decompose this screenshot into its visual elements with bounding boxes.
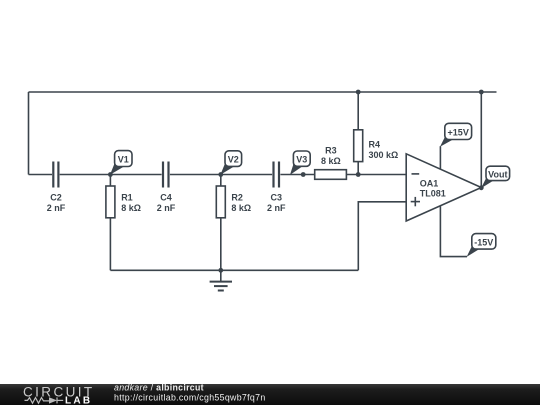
power net tag -15V	[467, 234, 496, 257]
resistor R2 value label	[231, 193, 251, 214]
svg-text:C4: C4	[160, 193, 172, 203]
wire V+ supply pin	[439, 146, 441, 170]
resistor R4 value label	[369, 139, 399, 160]
probe flag V1	[110, 151, 132, 175]
svg-text:V3: V3	[296, 155, 307, 165]
svg-text:C2: C2	[50, 193, 62, 203]
svg-text:V1: V1	[118, 154, 129, 164]
svg-text:300 kΩ: 300 kΩ	[369, 150, 399, 160]
svg-text:OA1: OA1	[420, 179, 439, 189]
ground	[210, 270, 232, 290]
node R3-R4 junction	[356, 172, 361, 177]
wire R1 top stub	[109, 175, 111, 187]
wire C4 to C3 through node V2	[170, 174, 272, 176]
svg-text:R3: R3	[325, 146, 337, 156]
node V1 junction	[108, 172, 113, 177]
output net tag Vout	[481, 166, 510, 188]
capacitor C2 value label	[47, 193, 66, 214]
node feedback top junction	[479, 90, 484, 95]
op-amp OA1 name label	[420, 179, 446, 199]
op-amp OA1 non-inverting input marker	[411, 197, 420, 206]
svg-text:-15V: -15V	[474, 238, 493, 248]
wire R3 to op-amp inverting input	[346, 174, 406, 176]
wire input to C2	[29, 174, 53, 176]
capacitor C4 value label	[157, 193, 176, 214]
capacitor C4	[163, 162, 169, 188]
capacitor C2	[53, 162, 58, 188]
footer CircuitLab logo text	[23, 384, 95, 399]
wire R1 bottom stub	[109, 218, 111, 270]
capacitor C3 value label	[267, 193, 286, 214]
svg-text:8 kΩ: 8 kΩ	[231, 203, 251, 213]
probe flag V2	[220, 151, 241, 175]
probe flag V3	[290, 151, 310, 175]
wire R4 top stub	[357, 92, 359, 130]
svg-text:2 nF: 2 nF	[157, 203, 176, 213]
wire C2 to C4 through node V1	[60, 174, 162, 176]
svg-text:Vout: Vout	[488, 169, 507, 179]
svg-text:R4: R4	[369, 139, 381, 149]
wire V- supply pin	[440, 206, 467, 256]
svg-text:V2: V2	[228, 154, 239, 164]
wire R2 bottom stub	[220, 218, 222, 270]
footer logo resistor-diode glyph	[25, 397, 64, 403]
wire non-inverting input	[358, 202, 406, 270]
svg-text:R1: R1	[121, 193, 133, 203]
svg-text:8 kΩ: 8 kΩ	[321, 156, 341, 166]
capacitor C3	[274, 162, 280, 188]
svg-text:+15V: +15V	[448, 128, 469, 138]
svg-text:C3: C3	[271, 193, 283, 203]
power net tag +15V	[440, 123, 472, 146]
node R4 top junction	[356, 90, 361, 95]
resistor R2	[216, 186, 225, 218]
wire C3 to R3 through node V3	[280, 174, 314, 176]
wire feedback vertical	[480, 92, 482, 188]
resistor R3	[315, 170, 347, 180]
svg-text:R2: R2	[231, 193, 243, 203]
svg-text:http://circuitlab.com/cgh55qwb: http://circuitlab.com/cgh55qwb7fq7n	[114, 393, 266, 403]
resistor R4	[354, 130, 363, 162]
op-amp OA1 inverting input marker	[412, 173, 420, 175]
resistor R1	[106, 186, 115, 218]
wire left vertical	[28, 92, 30, 175]
wire top feedback bus	[29, 91, 497, 93]
svg-text:TL081: TL081	[420, 189, 446, 199]
resistor R1 value label	[121, 193, 141, 214]
node ground junction	[218, 268, 223, 273]
svg-text:2 nF: 2 nF	[267, 203, 286, 213]
node op-amp output junction	[479, 185, 484, 190]
node V2 junction	[218, 172, 223, 177]
op-amp OA1 body	[406, 154, 481, 221]
svg-text:andkare / albincircut: andkare / albincircut	[114, 382, 204, 392]
wire R4 bottom stub	[357, 162, 359, 175]
svg-text:8 kΩ: 8 kΩ	[121, 203, 141, 213]
svg-text:2 nF: 2 nF	[47, 203, 66, 213]
svg-text:LAB: LAB	[65, 395, 92, 405]
wire R2 top stub	[220, 175, 222, 187]
node after C3 junction	[301, 172, 306, 177]
resistor R3 value label	[321, 146, 341, 167]
wire bottom bus	[110, 269, 358, 271]
